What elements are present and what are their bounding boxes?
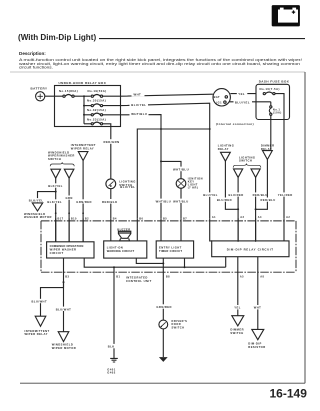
connector wiper switch left <box>51 169 61 178</box>
svg-text:GRN: GRN <box>66 196 73 200</box>
wire branch to ignition key light <box>161 161 181 178</box>
connector lighting switch right <box>251 169 260 178</box>
junction dot ground bus / B1 <box>113 266 115 268</box>
svg-text:(With Dim-Dip Light): (With Dim-Dip Light) <box>18 33 96 42</box>
fuse No.1 (10A) vertical <box>269 106 281 116</box>
intermittent wiper relay label <box>71 143 96 150</box>
wire fuse No.15 to bus <box>74 95 90 97</box>
wire YEL (ignition switch to dash fuse box) <box>230 93 256 95</box>
svg-text:BATTERY: BATTERY <box>31 86 48 90</box>
fuse No.32(15A) <box>84 108 106 116</box>
svg-text:BLU/WHT: BLU/WHT <box>32 300 48 304</box>
wire GRN/RED (B8 to driver's door switch) <box>162 263 164 320</box>
svg-text:No.15(80A): No.15(80A) <box>59 89 78 93</box>
title heading <box>18 33 96 42</box>
svg-text:Description:: Description: <box>19 51 46 56</box>
connector windshield washer motor <box>32 203 42 211</box>
svg-text:SWITCH: SWITCH <box>172 325 185 329</box>
connector wiper switch right <box>64 169 74 178</box>
wire B3 (combined box down) <box>63 258 65 282</box>
svg-text:SWITCH: SWITCH <box>119 183 132 187</box>
brace over wiper switch connectors <box>50 162 74 166</box>
label WHT <box>132 92 145 97</box>
svg-text:A1: A1 <box>212 216 216 219</box>
label WHT/BLU (wire 181) <box>172 199 189 204</box>
description heading <box>19 51 46 56</box>
svg-text:B10: B10 <box>71 218 77 221</box>
svg-text:WARNING CIRCUIT: WARNING CIRCUIT <box>107 249 135 253</box>
wire B4 into box <box>110 218 112 241</box>
label GRN/RED <box>76 199 92 204</box>
svg-text:A3: A3 <box>240 216 244 219</box>
svg-text:(10A): (10A) <box>273 110 282 114</box>
entry light timer circuit box <box>156 241 193 258</box>
svg-text:SWITCH: SWITCH <box>239 159 252 163</box>
label RED/BLU (wire 255.6) <box>252 192 268 197</box>
svg-text:RED/BLU: RED/BLU <box>253 193 268 197</box>
wire key light to pin B7 <box>180 188 182 218</box>
wire WHT (dim-dip box to dim-dip resistor) <box>257 257 259 330</box>
battery section icon (top right) <box>272 5 300 26</box>
label WHT/BLU (above key light) <box>172 167 191 172</box>
wire B17 into box <box>55 218 57 242</box>
junction dot B3 branch <box>63 281 65 283</box>
junction dots on bus <box>83 95 85 116</box>
junction dot at 161,161.4 <box>160 160 162 162</box>
wire from entry light box bottom <box>162 258 164 263</box>
label BLU/RED <box>216 198 232 203</box>
svg-text:CIRCUIT: CIRCUIT <box>50 251 64 255</box>
wire GRN (wiper switch right to B10) <box>68 178 70 242</box>
wire BLU/YEL inside dash box to fuse No.1 <box>256 102 271 106</box>
junction dot ground bus / entry <box>184 266 186 268</box>
connector intermittent wiper relay (lower) <box>35 316 46 326</box>
junction dot node at 161,129 <box>160 128 162 130</box>
svg-text:WHT: WHT <box>254 306 261 310</box>
svg-text:WIPER RELAY: WIPER RELAY <box>71 147 94 151</box>
svg-text:WIPER MOTOR: WIPER MOTOR <box>52 346 76 350</box>
wire B5 into box <box>160 218 162 241</box>
label BLU/WHT <box>31 299 48 304</box>
wire B10 into box <box>68 218 70 242</box>
label YEL <box>233 305 243 310</box>
svg-text:B7: B7 <box>183 218 187 221</box>
lighting switch SW1 <box>106 179 136 189</box>
svg-text:INTERMITTENT: INTERMITTENT <box>25 329 50 333</box>
ground G401/G402 <box>107 358 118 374</box>
svg-text:WASHER MOTOR: WASHER MOTOR <box>24 215 52 219</box>
connector dim-dip resistor <box>252 329 264 339</box>
svg-text:B4: B4 <box>113 218 117 221</box>
svg-text:B6: B6 <box>139 218 143 221</box>
svg-text:RED/BLK: RED/BLK <box>102 200 118 204</box>
label BLU/YEL <box>234 100 253 105</box>
junction dot entry node <box>162 262 164 264</box>
dim-dip resistor label <box>248 341 265 348</box>
wire BLU/RED (lighting switch left to A3) <box>237 177 239 241</box>
svg-text:(7 HR): (7 HR) <box>188 186 198 190</box>
svg-text:A4: A4 <box>258 216 262 219</box>
connector dimmer relay <box>263 151 273 160</box>
svg-text:B2: B2 <box>85 218 89 221</box>
svg-text:LIGHT-ON: LIGHT-ON <box>107 245 123 249</box>
svg-text:SWITCH: SWITCH <box>230 331 243 335</box>
wire RED/GRN (fuse No.23 down to lighting switch) <box>103 124 111 179</box>
svg-text:TIMER CIRCUIT: TIMER CIRCUIT <box>159 249 182 253</box>
wire from light-on box bottom <box>136 258 163 263</box>
svg-text:16-149: 16-149 <box>270 386 308 400</box>
svg-text:WHT/BLU: WHT/BLU <box>131 112 147 116</box>
fuse No.19(50A) <box>88 89 107 97</box>
under-hood relay box <box>55 81 121 126</box>
wire B2 into box <box>82 218 84 242</box>
svg-text:WHT/BLU: WHT/BLU <box>173 199 189 203</box>
svg-text:ENTRY LIGHT: ENTRY LIGHT <box>159 245 182 249</box>
wire dim-dip box to ground bus <box>225 257 227 268</box>
wire entry box to ground bus <box>184 258 186 267</box>
svg-text:No.19(50A): No.19(50A) <box>88 89 107 93</box>
wire RED/BLU (lighting switch right to A4) <box>255 177 257 241</box>
battery <box>31 86 48 101</box>
wire RED/BLU (dimmer relay, jogs to A4 node) <box>256 160 268 210</box>
svg-text:YEL: YEL <box>238 92 245 96</box>
wire A2 into box <box>283 218 285 241</box>
svg-text:DIMMER: DIMMER <box>230 328 244 332</box>
svg-text:G402: G402 <box>107 371 115 375</box>
bus vertical in relay box <box>83 96 85 124</box>
label YEL/RED (A2 wire) <box>277 192 293 197</box>
svg-text:WHT: WHT <box>134 93 142 97</box>
wire battery to under-hood relay box <box>45 95 63 97</box>
svg-text:CONTROL UNIT: CONTROL UNIT <box>126 279 152 283</box>
ignition key light <box>176 176 203 189</box>
svg-text:YEL/RED: YEL/RED <box>278 193 293 197</box>
svg-text:UNDER-HOOD RELAY BOX: UNDER-HOOD RELAY BOX <box>59 81 107 85</box>
svg-text:BLK/YEL: BLK/YEL <box>48 184 63 188</box>
label WHT/BLU (wire 161) <box>155 199 172 204</box>
ground bus wire <box>84 258 226 267</box>
description paragraph <box>19 58 303 70</box>
svg-text:BLU/WHT: BLU/WHT <box>56 307 72 311</box>
connector dimmer switch <box>232 316 244 326</box>
chassis ground (filled triangle) <box>159 357 168 362</box>
label (Internal connection) <box>216 122 254 126</box>
junction dot node at 209.7,129 <box>209 128 211 130</box>
svg-text:RED/BLU: RED/BLU <box>261 198 276 202</box>
svg-text:GRN/RED: GRN/RED <box>76 200 92 204</box>
svg-text:WINDSHIELD: WINDSHIELD <box>52 343 74 347</box>
svg-text:BLK/YEL: BLK/YEL <box>47 200 62 204</box>
label GRN <box>65 196 74 201</box>
svg-text:No.32(15A): No.32(15A) <box>87 108 106 112</box>
integrated control unit dashed outline <box>41 221 296 272</box>
integrated control unit label <box>126 276 152 283</box>
wire A4 into box <box>255 218 257 241</box>
brace over lighting switch connectors <box>233 164 261 168</box>
svg-text:G401: G401 <box>107 367 115 371</box>
svg-text:BLU/RED: BLU/RED <box>217 198 232 202</box>
svg-text:B1: B1 <box>116 276 120 279</box>
wire to windshield washer motor <box>38 192 56 203</box>
wire WHT (fuse No.19 to ignition switch BAT) <box>103 94 213 96</box>
svg-text:DIM-DIP: DIM-DIP <box>248 341 261 345</box>
heading rule <box>99 38 305 40</box>
driver's door switch <box>159 319 187 329</box>
svg-text:BLU/YEL: BLU/YEL <box>131 103 146 107</box>
wire A3 into box <box>237 218 239 241</box>
wire BLU/YEL (fuse No.35 to node, turns down) <box>103 103 210 218</box>
svg-text:YEL: YEL <box>234 306 241 310</box>
windshield wiper motor label <box>52 343 76 350</box>
svg-text:SWITCH: SWITCH <box>48 157 61 161</box>
svg-text:BAT: BAT <box>214 95 221 99</box>
svg-text:A5: A5 <box>240 276 244 279</box>
svg-text:No.23(15A): No.23(15A) <box>87 118 106 122</box>
svg-text:RESISTOR: RESISTOR <box>248 345 265 349</box>
buzzer <box>118 231 130 241</box>
svg-text:A2: A2 <box>286 216 290 219</box>
svg-text:B17: B17 <box>58 218 64 221</box>
junction dot A4 node <box>255 208 257 210</box>
dim-dip relay circuit box <box>212 241 289 257</box>
svg-text:BLU/YEL: BLU/YEL <box>235 100 250 104</box>
wire B7 into box <box>180 218 182 241</box>
connector lighting switch left <box>234 169 243 178</box>
label WHT <box>253 305 263 310</box>
svg-text:DIM-DIP RELAY CIRCUIT: DIM-DIP RELAY CIRCUIT <box>227 248 274 252</box>
wire RED/BLK (lighting switch down to pin B4) <box>110 189 112 219</box>
ignition switch <box>213 89 230 106</box>
connector windshield wiper motor <box>58 332 69 342</box>
svg-text:RED/GRN: RED/GRN <box>104 140 120 144</box>
junction dot washer branch <box>55 191 57 193</box>
svg-text:DASH FUSE BOX: DASH FUSE BOX <box>259 80 290 84</box>
wire door switch to chassis ground <box>162 329 164 357</box>
dimmer switch label <box>230 328 244 335</box>
wire B1 to ground <box>113 267 115 358</box>
junction dot A3 node <box>237 208 239 210</box>
svg-text:IG1: IG1 <box>217 100 223 104</box>
label YEL <box>237 91 248 96</box>
wire B6 into box <box>136 218 138 241</box>
label RED/BLK <box>101 199 119 204</box>
combined operation wiper washer circuit box <box>47 242 94 258</box>
svg-text:INTEGRATED: INTEGRATED <box>126 276 148 280</box>
fuse No.15(80A) <box>59 89 78 97</box>
svg-text:WIPER RELAY: WIPER RELAY <box>25 332 48 336</box>
label BLK/YEL (B17 wire) <box>47 199 63 204</box>
dimmer relay label <box>261 144 275 151</box>
svg-text:B5: B5 <box>163 218 167 221</box>
label BLK <box>107 344 117 349</box>
svg-text:No.35(15A): No.35(15A) <box>87 99 106 103</box>
svg-text:BLU/YEL: BLU/YEL <box>203 193 218 197</box>
lighting relay label <box>218 144 234 151</box>
fuse No.10(7.5A) <box>260 87 280 95</box>
connector lighting relay <box>221 152 231 161</box>
svg-text:washer circuit, light-on warni: washer circuit, light-on warning circuit… <box>19 62 300 66</box>
svg-text:BLK: BLK <box>108 345 115 349</box>
wire BLU/WHT branch to intermittent wiper relay <box>41 282 64 316</box>
label RED/GRN <box>102 139 120 144</box>
wire BLU/YEL (ignition switch IG1 to dash fuse box) <box>229 101 256 103</box>
wire fuse No.1 down to dimmer relay <box>270 115 272 150</box>
label BLK/YEL (washer motor wire) <box>28 198 43 203</box>
lighting switch (column) label <box>239 155 255 162</box>
svg-text:B8: B8 <box>166 276 170 279</box>
wire YEL (dim-dip box to dimmer switch) <box>237 257 239 316</box>
label BLU/RED (wire 238) <box>228 192 244 197</box>
svg-text:B3: B3 <box>65 276 69 279</box>
svg-text:circuit functions.: circuit functions. <box>19 66 53 70</box>
svg-text:COMBINED OPERATION: COMBINED OPERATION <box>50 244 84 248</box>
pin contact dots <box>55 212 84 214</box>
wire WHT/BLU (fuse No.32, down at 161) <box>103 115 161 219</box>
svg-text:WHT/BLU: WHT/BLU <box>156 199 172 203</box>
wire BLU/RED (lighting relay, jogs to A3 node) <box>225 161 238 209</box>
dash fuse box <box>256 80 290 120</box>
svg-text:WHT/BLU: WHT/BLU <box>173 167 189 171</box>
svg-text:No.10(7.5A): No.10(7.5A) <box>260 87 280 91</box>
windshield wiper/washer switch label <box>48 150 75 161</box>
fuse No.23(15A) <box>84 118 106 125</box>
wire fuse No.10 to A2 drop <box>275 94 284 219</box>
label GRN/RED <box>155 304 172 309</box>
fuse No.35(15A) <box>84 99 106 107</box>
wire A1 into box <box>210 218 212 241</box>
wire BLU/WHT to windshield wiper motor <box>63 282 65 332</box>
svg-text:RELAY: RELAY <box>218 147 229 151</box>
windshield washer motor label <box>24 212 52 219</box>
svg-text:WIPER WASHER: WIPER WASHER <box>50 248 77 252</box>
light-on warning circuit box <box>104 241 147 258</box>
svg-text:GRN/RED: GRN/RED <box>156 305 172 309</box>
label BLU/YEL (wire 209.7) <box>202 192 219 197</box>
label RED/BLU (dimmer relay wire) <box>260 198 276 203</box>
label BLU/WHT (wiper motor) <box>55 307 72 312</box>
svg-text:A8: A8 <box>260 276 264 279</box>
label WHT/BLU <box>130 111 149 116</box>
label BLU/YEL (wire 137) <box>119 184 136 189</box>
wire BLK/YEL (wiper switch left to B17) <box>55 178 57 242</box>
svg-text:BLK/YEL: BLK/YEL <box>29 199 44 203</box>
wire cross link (horizontal node row) <box>137 129 209 218</box>
connector intermittent wiper relay <box>78 152 88 161</box>
svg-text:(Internal connection): (Internal connection) <box>216 122 254 126</box>
intermittent wiper relay label (lower) <box>25 329 50 336</box>
label BLK/YEL <box>47 183 63 188</box>
label BLU/YEL <box>130 102 149 107</box>
wire GRN/RED (wiper relay to B2) <box>82 161 84 242</box>
svg-text:BLU/RED: BLU/RED <box>229 193 244 197</box>
